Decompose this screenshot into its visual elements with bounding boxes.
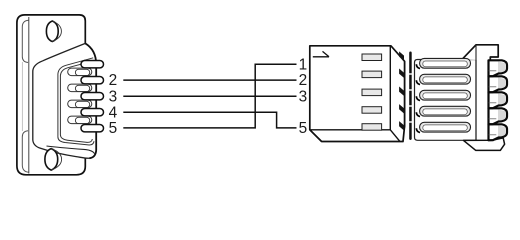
- svg-text:5: 5: [109, 120, 118, 137]
- svg-text:2: 2: [299, 72, 308, 89]
- svg-text:1: 1: [299, 56, 308, 73]
- svg-text:4: 4: [109, 104, 118, 121]
- svg-text:3: 3: [299, 88, 308, 105]
- svg-text:3: 3: [109, 88, 118, 105]
- svg-text:5: 5: [299, 120, 308, 137]
- svg-text:2: 2: [109, 72, 118, 89]
